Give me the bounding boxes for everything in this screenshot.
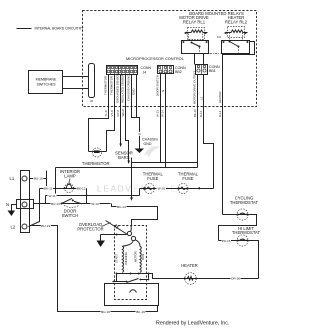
svg-text:W-11: W-11: [48, 194, 55, 198]
svg-text:THERMOSTAT: THERMOSTAT: [230, 200, 259, 205]
svg-text:BB1: BB1: [209, 69, 216, 73]
watermark LeadVenture: [97, 146, 178, 193]
centrifugal switch: [122, 226, 140, 246]
hi limit thermostat label: [232, 226, 261, 235]
drop to door circuit: [130, 163, 133, 201]
door switch upper line: [46, 195, 140, 197]
thermal fuse line: [140, 187, 214, 190]
svg-text:R-14: R-14: [218, 110, 222, 117]
J4 pin label THERMISTOR 1: [104, 76, 108, 95]
svg-text:L1: L1: [199, 96, 203, 100]
svg-text:PROTECTOR: PROTECTOR: [77, 227, 103, 232]
wire label PK-16: [222, 239, 232, 244]
wire membrane to J2 (top): [63, 76, 89, 78]
svg-text:BK-16: BK-16: [193, 109, 197, 117]
membrane switches: [29, 71, 63, 94]
svg-text:CHASSIS GROUND: CHASSIS GROUND: [126, 75, 130, 101]
main winding: [140, 246, 141, 272]
label N rotated: [161, 90, 165, 92]
svg-text:RELAY RL1: RELAY RL1: [183, 20, 206, 25]
connector J4: [107, 66, 152, 75]
interior lamp label: [60, 169, 80, 179]
terminal N label: [6, 202, 9, 207]
wire RL1 pin to BB1: [194, 54, 196, 65]
wire membrane to J2 (bottom): [63, 88, 89, 90]
wire label BU-10: [33, 176, 43, 181]
svg-text:BU-13: BU-13: [51, 202, 60, 206]
svg-text:PK-16: PK-16: [222, 239, 231, 243]
wire L1 from BB1: [204, 75, 214, 189]
svg-text:MEMBRANE: MEMBRANE: [36, 78, 57, 82]
label RUN rotated: [141, 254, 145, 260]
wire label BK-19 bottom: [136, 309, 146, 314]
wire door switch from BB2: [160, 74, 162, 163]
svg-text:GND: GND: [132, 89, 136, 95]
riser to door circuit: [55, 168, 57, 196]
wire code label R-14: [218, 110, 222, 117]
wire label W-15: [157, 186, 167, 191]
svg-text:J2: J2: [90, 99, 94, 103]
motor switch contact 1: [113, 279, 139, 283]
wire label BK-11: [44, 186, 54, 191]
hi limit line: [219, 241, 259, 279]
wire label BK-12: [77, 186, 87, 191]
svg-text:W-14: W-14: [161, 110, 165, 117]
overload protector label: [77, 222, 110, 231]
thermistor: [82, 148, 110, 166]
wire label BU-14: [117, 204, 127, 209]
overload protector arm: [106, 221, 128, 235]
cycling thermostat label: [230, 196, 259, 206]
wire RL1 pin2 to BB1: [203, 54, 205, 65]
mechanical link RL1-RL2: [210, 53, 221, 55]
interior lamp: [64, 184, 74, 193]
heater label: [181, 263, 198, 268]
motor dashed outline: [115, 226, 147, 300]
svg-text:HEATER: HEATER: [181, 263, 198, 268]
motor contact left drop: [116, 274, 118, 282]
node bus lower: [56, 167, 198, 169]
svg-text:MICROPROCESSOR CONTROL: MICROPROCESSOR CONTROL: [126, 56, 185, 61]
svg-text:THERMISTOR: THERMISTOR: [104, 76, 108, 95]
svg-text:BU-10: BU-10: [34, 177, 43, 181]
svg-text:LEADV: LEADV: [97, 184, 132, 194]
wire code label R-16: [199, 110, 203, 117]
svg-text:YL-8: YL-8: [104, 110, 108, 116]
wire code label W-13: [155, 110, 159, 117]
label HEATER rotated: [218, 91, 222, 103]
J4 pin label INSULATED SENSOR: [121, 74, 125, 103]
relay RL2 labels: [225, 15, 248, 25]
label MOTOR DRIVE OUTPUT rotated: [192, 71, 196, 104]
microprocessor control label: [126, 56, 185, 61]
relay RL2 coil: [224, 27, 248, 41]
J4 pin label CHASSIS GROUND: [126, 75, 130, 101]
switch spring: [130, 290, 137, 293]
board mounted relays title: [189, 11, 244, 16]
terminal L2 label: [11, 225, 16, 230]
svg-text:FUSE: FUSE: [147, 176, 158, 181]
wire code label BK-16: [193, 109, 197, 117]
connector BB1: [196, 65, 220, 75]
svg-text:MOTOR DRIVE OUTPUT: MOTOR DRIVE OUTPUT: [192, 71, 196, 104]
wire gnd pin: [136, 75, 138, 118]
motor ground: [97, 234, 127, 248]
svg-text:W-13: W-13: [155, 110, 159, 117]
motor feed path: [112, 204, 158, 227]
svg-text:FUSE: FUSE: [182, 176, 193, 181]
svg-text:Rendered by LeadVenture, Inc.: Rendered by LeadVenture, Inc.: [156, 321, 229, 327]
svg-text:GY-8: GY-8: [116, 110, 120, 117]
svg-text:GND: GND: [144, 142, 152, 146]
svg-text:LAMP: LAMP: [64, 173, 76, 178]
svg-text:BU-19: BU-19: [101, 310, 110, 314]
label START rotated: [114, 254, 118, 263]
footer credit: [156, 321, 229, 327]
wire label BU-19 bottom: [101, 309, 111, 314]
wire label G: [138, 132, 142, 136]
J4 pin label GND: [132, 89, 136, 95]
hi limit thermostat: [237, 235, 248, 246]
connector J2: [89, 64, 95, 104]
svg-text:OR-30: OR-30: [231, 277, 240, 281]
svg-text:THERMISTOR: THERMISTOR: [82, 161, 110, 166]
chassis ground symbol: [135, 138, 159, 153]
control board dashed outline: [83, 11, 257, 107]
relay RL1 labels: [179, 15, 209, 25]
svg-text:WINDING: WINDING: [124, 251, 128, 265]
J4 pin label THERMISTOR 2: [110, 76, 114, 95]
svg-text:BK-11: BK-11: [44, 187, 53, 191]
svg-text:RELAY RL2: RELAY RL2: [225, 20, 248, 25]
wire label W-11: [48, 194, 57, 199]
label MOTOR rotated: [134, 251, 138, 262]
junction arrow on fuse line: [197, 187, 201, 190]
svg-text:SWITCH: SWITCH: [62, 213, 79, 218]
legend internal board circuitry: [17, 27, 85, 31]
wire motor drive output from BB1: [197, 75, 199, 168]
wire label OR-30: [231, 276, 241, 281]
wire label GY-8: [116, 110, 120, 117]
wire L1 stub: [46, 171, 48, 189]
terminal L1 label: [10, 176, 15, 181]
svg-text:L1: L1: [10, 176, 15, 181]
svg-text:INSULATED SENSOR: INSULATED SENSOR: [121, 74, 125, 103]
heater element: [184, 273, 196, 285]
svg-text:THERMOSTAT: THERMOSTAT: [232, 230, 261, 235]
door switch contacts: [61, 198, 83, 207]
door switch label: [62, 209, 79, 218]
label L1 rotated: [199, 96, 203, 100]
wire L1: [30, 178, 47, 180]
svg-text:HEATER: HEATER: [218, 91, 222, 103]
svg-text:BARS: BARS: [118, 155, 130, 160]
thermal fuse 2: [178, 172, 199, 194]
svg-text:R-16: R-16: [199, 110, 203, 117]
terminal block: [17, 171, 34, 233]
lamp line: [40, 188, 87, 190]
label WINDING rotated: [124, 251, 128, 265]
cycling thermostat: [237, 209, 248, 220]
door switch main line: [34, 203, 111, 205]
riser fuse line to door switch: [139, 189, 141, 196]
svg-text:BK-19: BK-19: [136, 310, 145, 314]
svg-text:N: N: [161, 90, 165, 92]
start winding: [122, 246, 123, 272]
wire sensor bar 1: [120, 75, 123, 148]
motor junction line: [116, 273, 150, 275]
svg-text:SWITCHES: SWITCHES: [37, 82, 57, 86]
wire sensor bar 2: [126, 75, 131, 165]
wire heater output from RL2: [223, 42, 255, 215]
lamp leader: [69, 179, 70, 184]
svg-text:INTERNAL BOARD CIRCUITRY: INTERNAL BOARD CIRCUITRY: [35, 27, 85, 31]
svg-text:START: START: [114, 254, 118, 263]
node bus upper: [132, 158, 198, 163]
svg-text:W-13: W-13: [91, 202, 99, 206]
riser upper to main line: [45, 196, 47, 204]
wire L2 run: [30, 226, 158, 312]
sensor bars label: [115, 151, 133, 161]
motor solid housing: [105, 284, 159, 306]
fuse FU label: [217, 35, 221, 39]
wire code label W-14: [161, 110, 165, 117]
wire label BU-13: [51, 201, 61, 206]
relay RL2 contact box: [222, 41, 250, 54]
wire label VT-8: [110, 110, 114, 116]
svg-text:VT-8: VT-8: [110, 110, 114, 116]
svg-text:WH-8: WH-8: [121, 109, 125, 117]
svg-text:BK-12: BK-12: [77, 187, 86, 191]
svg-text:MOTOR: MOTOR: [134, 251, 138, 262]
cycling thermostat line: [219, 215, 257, 241]
svg-text:THERMISTOR: THERMISTOR: [110, 76, 114, 95]
connector BB2: [158, 66, 186, 75]
ground at neutral: [8, 205, 17, 217]
svg-text:BB2: BB2: [175, 70, 182, 74]
relay RL1 coil: [184, 28, 208, 41]
svg-text:BU-14: BU-14: [117, 205, 126, 209]
svg-text:BU-19: BU-19: [41, 224, 50, 228]
svg-text:FU: FU: [217, 35, 221, 39]
lamp drop to L2: [29, 189, 40, 227]
wire thermistor 2: [107, 75, 115, 152]
wire chassis ground: [132, 75, 140, 149]
svg-text:N: N: [6, 202, 9, 207]
thermal fuse 1: [143, 172, 164, 194]
wire label BU-19: [41, 224, 51, 229]
J4 pin label GROUNDED SENSOR: [115, 73, 119, 103]
svg-text:J4: J4: [143, 70, 147, 74]
svg-text:W-15: W-15: [158, 186, 166, 190]
motor switch contact 2: [140, 274, 150, 281]
label DOOR SWITCH rotated: [155, 75, 159, 96]
wire label YL-8: [104, 110, 108, 116]
wire label WH-8: [121, 109, 125, 117]
svg-text:GROUNDED SENSOR: GROUNDED SENSOR: [115, 73, 119, 103]
heater supply line: [149, 274, 259, 279]
lamp drop to switch: [86, 189, 88, 204]
relay RL1 contact box: [182, 41, 209, 54]
wire thermistor 1: [89, 75, 109, 152]
svg-text:DOOR SWITCH: DOOR SWITCH: [155, 75, 159, 96]
svg-text:RUN: RUN: [141, 254, 145, 260]
svg-text:L2: L2: [11, 225, 16, 230]
wire neutral from BB2: [165, 74, 167, 168]
wire label W-13: [91, 201, 100, 206]
